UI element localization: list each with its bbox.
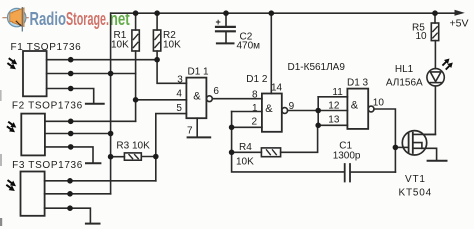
node VT1 gate <box>393 145 399 151</box>
F1 IR receiver box <box>23 51 47 96</box>
node F2 line1 <box>68 119 74 125</box>
wire R1 bottom / pin4 bus <box>135 51 137 121</box>
node output circle D1.2 pin9 <box>282 108 288 114</box>
wire R5 top stub <box>434 13 436 23</box>
svg-text:10: 10 <box>416 31 428 42</box>
wire R2 top stub <box>156 13 158 30</box>
transistor VT1 source lead to ground <box>413 148 437 160</box>
svg-text:D1 3: D1 3 <box>347 77 369 88</box>
node pin4 <box>133 97 139 103</box>
svg-text:7: 7 <box>187 125 193 136</box>
wire F3 line2 <box>45 193 111 195</box>
svg-text:470м: 470м <box>237 41 261 52</box>
node rail R2 <box>154 10 160 16</box>
transistor VT1 channel bar <box>412 133 414 153</box>
logo transistor orange shape <box>10 8 24 27</box>
svg-text:VT1: VT1 <box>405 174 426 185</box>
svg-text:12: 12 <box>328 101 340 112</box>
wire R1 top stub <box>135 13 137 30</box>
ground bar C2 <box>217 42 234 44</box>
resistor R5 <box>431 23 438 41</box>
node output circle D1.1 pin6 <box>207 96 213 102</box>
wire pin10 output down to VT1 gate node <box>374 109 395 172</box>
F2 IR receiver box <box>21 114 45 156</box>
wire pin6 to pin8 <box>212 98 262 100</box>
node B3 pin9 <box>315 108 321 114</box>
svg-text:10K: 10K <box>163 40 181 51</box>
svg-text:HL1: HL1 <box>395 64 414 75</box>
scan smudges left edge <box>0 90 2 226</box>
gate D1.3 <box>347 89 368 129</box>
svg-text:R4: R4 <box>239 142 252 153</box>
node B1 R3 <box>108 154 114 160</box>
capacitor C2 <box>225 13 227 26</box>
svg-text:F2 TSOP1736: F2 TSOP1736 <box>12 100 83 111</box>
svg-text:&: & <box>351 100 359 112</box>
svg-text:&: & <box>193 91 201 103</box>
svg-text:11: 11 <box>332 87 343 98</box>
node B1 F2line2 <box>108 131 114 137</box>
transistor VT1 gate bar <box>408 134 410 153</box>
wire LED cathode down to VT1 drain <box>424 86 435 134</box>
svg-text:&: & <box>265 103 273 115</box>
svg-text:4: 4 <box>176 88 182 99</box>
svg-text:net: net <box>110 8 130 29</box>
wire R3 left <box>111 156 125 158</box>
node rail pin14 <box>269 10 275 16</box>
wire R5 bottom to LED <box>434 41 436 69</box>
svg-text:Storage.: Storage. <box>66 8 109 29</box>
wire F1 line3 to ground <box>47 89 94 104</box>
node F3 line1 <box>67 178 73 184</box>
logo globe circle <box>8 8 26 26</box>
wire pin11 <box>318 96 347 98</box>
node F1 line2 <box>68 71 74 77</box>
wire pin7 to ground <box>196 118 198 137</box>
svg-text:14: 14 <box>271 83 283 94</box>
node F3 line3 <box>67 205 73 211</box>
ground bar F3 <box>86 223 100 225</box>
wire F3 line3 to ground <box>45 208 91 223</box>
logo crosshair <box>2 17 28 19</box>
LED HL1 <box>427 69 444 86</box>
svg-text:R3 10K: R3 10K <box>116 141 150 152</box>
wire +5V top rail <box>111 12 456 14</box>
svg-text:Radio: Radio <box>30 8 67 29</box>
svg-text:10K: 10K <box>111 40 129 51</box>
logo text <box>30 8 130 29</box>
wire bus B3 D1.2 out to D1.3 inputs <box>317 97 319 126</box>
logo vertical lead <box>21 7 23 32</box>
wire VT1 gate lead <box>395 146 408 148</box>
transistor VT1 substrate <box>413 143 422 149</box>
resistor R2 <box>153 30 160 51</box>
svg-text:F3 TSOP1736: F3 TSOP1736 <box>12 160 83 171</box>
node F1 line3 <box>68 86 74 92</box>
wire F2 line3 to ground <box>45 147 93 163</box>
svg-text:C1: C1 <box>339 140 352 151</box>
node rail R1 <box>133 10 139 16</box>
ground bar F2 <box>86 162 100 164</box>
transistor Q1: VT1 circle <box>402 131 426 155</box>
ground bar D1.1 pin7 <box>188 136 211 138</box>
wire D1.2 input bus B2 with C1 feed <box>232 112 345 172</box>
node rail C2 <box>223 10 229 16</box>
svg-text:3: 3 <box>177 74 183 85</box>
transistor VT1 drain lead <box>413 133 436 135</box>
svg-text:2: 2 <box>252 116 258 127</box>
svg-text:1300p: 1300p <box>333 151 361 162</box>
wire F2 line1 up to pin4 node <box>45 120 136 122</box>
node rail R5 <box>432 10 438 16</box>
resistor R3 <box>124 153 141 160</box>
svg-text:F1 TSOP1736: F1 TSOP1736 <box>11 42 82 53</box>
IR arrows F2 <box>5 119 18 134</box>
node F2 line3 <box>68 144 74 150</box>
node B2 R4 <box>229 150 235 156</box>
node B2 pin2 <box>229 125 235 131</box>
ground bar VT1 source <box>428 160 447 162</box>
node R3 right <box>153 154 159 160</box>
node B3 pin13 <box>315 123 321 129</box>
gate D1.2 <box>262 94 282 132</box>
wire F1 out line1 <box>47 59 158 61</box>
IR arrows F1 <box>6 56 19 72</box>
wire bus B1 from rail down to F3 line2 <box>110 13 112 194</box>
wire F2 line2 <box>45 133 111 135</box>
svg-text:+: + <box>216 17 221 27</box>
wire F3 line1 <box>45 180 156 182</box>
wire pin14 to rail <box>270 13 272 93</box>
LED emission arrows <box>440 57 454 72</box>
node F3 line2 <box>67 191 73 197</box>
svg-text:D1-К561ЛА9: D1-К561ЛА9 <box>288 62 346 73</box>
node B1 F1line2 <box>108 71 114 77</box>
capacitor C1 <box>345 164 350 182</box>
svg-text:13: 13 <box>328 115 340 126</box>
svg-text:9: 9 <box>289 101 295 112</box>
wire pin2 <box>232 126 262 128</box>
svg-text:10: 10 <box>373 98 385 109</box>
svg-text:АЛ156А: АЛ156А <box>386 77 423 88</box>
wire pin1 <box>232 111 262 113</box>
svg-text:10K: 10K <box>236 157 254 168</box>
node F2 line2 <box>68 131 74 137</box>
op-amp U1: gate D1.1 <box>186 78 206 119</box>
svg-text:8: 8 <box>252 90 258 101</box>
wire R4 right up to pin13 node <box>281 125 318 152</box>
svg-text:6: 6 <box>213 86 219 97</box>
wire pin9 output <box>288 110 319 112</box>
wire pin12 <box>318 110 347 112</box>
resistor R1 <box>132 30 139 51</box>
wire pin4 line <box>136 99 187 101</box>
svg-text:1: 1 <box>252 103 258 114</box>
wire pin13 <box>318 124 347 126</box>
IR arrows F3 <box>5 178 18 194</box>
svg-text:KT504: KT504 <box>399 188 432 199</box>
node F1 line1 <box>68 57 74 63</box>
node output circle D1.3 pin10 <box>368 106 374 112</box>
wire C1 right <box>350 171 395 173</box>
svg-text:+5V: +5V <box>450 17 469 29</box>
svg-text:5: 5 <box>176 103 182 114</box>
wire R4 left <box>232 151 262 153</box>
F3 IR receiver box <box>21 172 45 216</box>
node +5V arrow <box>455 10 465 16</box>
resistor R4 <box>261 148 280 157</box>
svg-text:D1 1: D1 1 <box>188 67 210 78</box>
svg-text:D1 2: D1 2 <box>246 74 268 85</box>
wire F1 line2 <box>47 73 136 75</box>
wire R2 bottom to pin3 <box>157 51 186 83</box>
wire pin5 vertical from F3 line1 up to D1.1 pin5 <box>156 114 187 181</box>
logo emitter arrow <box>16 21 21 26</box>
node R2 line1 <box>154 57 160 63</box>
ground bar F1 <box>86 103 104 105</box>
wire R3 right <box>141 156 156 158</box>
